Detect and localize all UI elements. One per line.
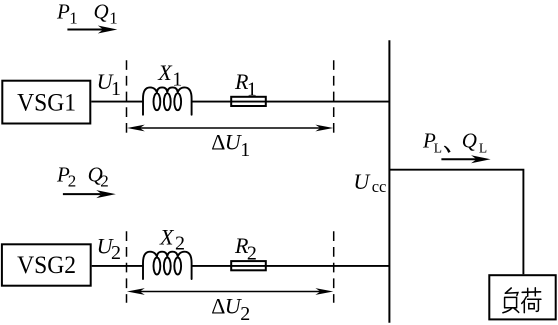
- svg-text:1: 1: [172, 68, 182, 90]
- svg-text:2: 2: [111, 242, 121, 264]
- svg-text:X: X: [157, 60, 173, 85]
- svg-text:VSG1: VSG1: [17, 89, 76, 116]
- dashed boundary line (left, bottom circuit): [126, 231, 128, 302]
- node label U2: [97, 234, 121, 265]
- label deltaU1: [211, 130, 250, 162]
- svg-text:1: 1: [69, 9, 78, 28]
- svg-text:2: 2: [247, 243, 257, 265]
- VSG1 source box: [2, 81, 90, 124]
- dashed boundary line (right, top circuit): [333, 60, 335, 136]
- node label Ucc: [353, 169, 386, 196]
- inductor X1 coil: [143, 60, 192, 115]
- svg-text:Q: Q: [462, 129, 477, 153]
- svg-text:Q: Q: [94, 0, 109, 23]
- bus bar (node Ucc): [388, 40, 390, 323]
- svg-text:P: P: [56, 0, 70, 23]
- wire from VSG2 to bus: [92, 265, 144, 267]
- svg-text:L: L: [479, 140, 487, 155]
- svg-text:1: 1: [111, 78, 121, 100]
- wire coil X2 to bus: [191, 265, 389, 267]
- svg-text:1: 1: [240, 139, 250, 161]
- svg-text:Δ: Δ: [211, 130, 225, 155]
- dashed boundary line (left, top circuit): [126, 60, 128, 134]
- power-flow label P2 Q2 with arrow: [56, 162, 116, 198]
- svg-text:U: U: [353, 169, 371, 194]
- resistor R2: [231, 233, 266, 270]
- dashed boundary line (right, bottom circuit): [333, 231, 335, 302]
- svg-text:1: 1: [109, 9, 118, 28]
- svg-text:cc: cc: [372, 177, 387, 196]
- inductor X2 coil: [143, 224, 192, 279]
- svg-text:L: L: [434, 140, 442, 155]
- svg-text:Δ: Δ: [211, 293, 225, 318]
- svg-text:X: X: [159, 224, 175, 249]
- svg-text:2: 2: [100, 172, 109, 191]
- svg-text:2: 2: [68, 172, 77, 191]
- wire from bus to load: [389, 170, 523, 275]
- load box: [489, 275, 555, 319]
- wire from VSG1 to bus: [91, 101, 143, 103]
- svg-text:2: 2: [175, 233, 185, 255]
- dimension arrow for deltaU2: [127, 288, 333, 295]
- ideographic comma: [444, 146, 451, 153]
- svg-text:2: 2: [240, 303, 250, 325]
- power-flow label P1 Q1 with arrow: [56, 0, 118, 34]
- svg-text:1: 1: [247, 78, 257, 100]
- label deltaU2: [211, 293, 250, 324]
- resistor R1: [231, 69, 266, 106]
- load label: character FU (negative/load): [503, 288, 519, 313]
- power-flow label PL QL with arrow: [422, 129, 491, 164]
- dimension arrow for deltaU1: [127, 125, 333, 132]
- node label U1: [97, 69, 121, 100]
- svg-text:VSG2: VSG2: [17, 252, 76, 279]
- VSG2 source box: [2, 244, 91, 285]
- wire coil X1 to bus: [191, 101, 389, 103]
- load label: character HE (carry/load): [522, 288, 541, 313]
